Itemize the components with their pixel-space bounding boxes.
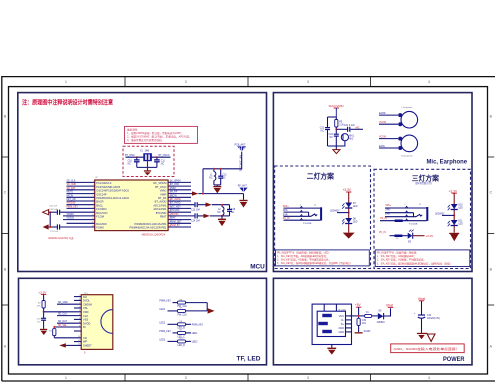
svg-text:OSC24I/PC5/SD/DAT-ADC6: OSC24I/PC5/SD/DAT-ADC6: [96, 189, 129, 193]
svg-text:FOMO: FOMO: [96, 226, 104, 230]
resistor R7: [178, 309, 186, 312]
wire pin18: [168, 196, 191, 198]
svg-text:晶振说明：: 晶振说明：: [127, 128, 140, 132]
svg-text:3、S/A_KEY灯贴，按2时间隔宽脉冲LED模式灯，加89: 3、S/A_KEY灯贴，按2时间隔宽脉冲LED模式灯，加890电位（禁贴）: [377, 261, 452, 265]
svg-text:ANT_50R_LINE: ANT_50R_LINE: [239, 155, 242, 172]
capacitor C31: [418, 314, 425, 316]
svg-text:C23: C23: [329, 134, 334, 136]
svg-text:C22: C22: [320, 128, 325, 130]
svg-text:MIC: MIC: [356, 127, 361, 129]
wire pin3: [67, 189, 95, 191]
wire pin4: [67, 193, 95, 195]
note box: [391, 344, 465, 353]
svg-text:SPK+: SPK+: [283, 206, 290, 208]
wire: [413, 235, 425, 237]
junction: [348, 212, 350, 214]
LED D2: [345, 218, 352, 223]
wire pin15: [168, 185, 191, 187]
ground under USB: [331, 345, 333, 348]
svg-text:二灯方案: 二灯方案: [307, 171, 334, 180]
svg-text:MCU: MCU: [250, 264, 265, 271]
svg-text:Vbat: Vbat: [386, 303, 393, 307]
svg-text:VMID: VMID: [170, 188, 176, 190]
svg-text:7: 7: [79, 295, 80, 297]
svg-text:X1 24M: X1 24M: [140, 151, 149, 153]
svg-text:VMIP: VMIP: [160, 192, 167, 196]
svg-text:PC4/SD/CMD-ADC5: PC4/SD/CMD-ADC5: [96, 185, 120, 189]
svg-text:C13 104: C13 104: [191, 210, 200, 212]
svg-text:SD_DAT: SD_DAT: [58, 320, 67, 323]
junction: [221, 204, 223, 206]
wire SHEET + arrow: [66, 344, 82, 346]
svg-text:NC: NC: [329, 137, 333, 139]
wire: [147, 161, 149, 170]
svg-text:+3.3V: +3.3V: [38, 290, 47, 294]
svg-text:C14 104: C14 104: [191, 221, 200, 223]
capacitor C10: [136, 157, 138, 160]
ground SGND (open): [427, 334, 435, 341]
arrow: [192, 191, 198, 195]
wire: [202, 169, 204, 194]
svg-text:PK_IN: PK_IN: [283, 218, 290, 220]
svg-text:PWM_KEY: PWM_KEY: [67, 206, 79, 208]
notes: [277, 250, 352, 265]
svg-text:LED: LED: [353, 221, 358, 223]
svg-text:EARR: EARR: [379, 112, 386, 115]
svg-text:DI: DI: [83, 325, 86, 329]
svg-text:BACR: BACR: [96, 200, 103, 204]
svg-text:BT_OSCO: BT_OSCO: [159, 155, 170, 157]
svg-text:5: 5: [79, 318, 80, 320]
svg-text:MICIN: MICIN: [170, 195, 177, 197]
svg-text:D11: D11: [458, 220, 463, 222]
svg-text:LED2: LED2: [192, 341, 198, 343]
notes box: [276, 250, 370, 266]
svg-text:C11: C11: [161, 160, 166, 162]
svg-text:LED: LED: [458, 223, 463, 225]
svg-text:D10: D10: [458, 204, 463, 206]
junction: [53, 326, 55, 328]
svg-text:PWM_KEY: PWM_KEY: [159, 301, 171, 303]
ground: [450, 233, 459, 241]
wire: [126, 156, 171, 158]
junction: [202, 193, 204, 195]
svg-text:LED2: LED2: [159, 322, 165, 324]
crystal dashed box: [123, 146, 174, 176]
junction: [335, 128, 337, 130]
ground: [144, 170, 151, 171]
svg-text:D-: D-: [341, 319, 344, 322]
svg-text:RF_ANT: RF_ANT: [238, 185, 248, 188]
svg-text:NC: NC: [37, 321, 41, 323]
pin numbers: [78, 295, 80, 346]
wire: [54, 326, 81, 328]
LED D5: [408, 233, 413, 239]
svg-text:PA_RF: PA_RF: [170, 191, 178, 194]
svg-text:C17 1uF: C17 1uF: [50, 231, 59, 233]
svg-text:MK1: MK1: [349, 136, 354, 138]
svg-text:GND: GND: [338, 331, 344, 334]
LED D4: [451, 220, 458, 225]
wire pin7: [67, 204, 95, 206]
wire pin2: [67, 185, 95, 187]
svg-text:SPK-: SPK-: [283, 210, 289, 212]
svg-text:LED3: LED3: [159, 339, 165, 341]
svg-text:BTCVDD: BTCVDD: [170, 210, 180, 212]
wire: [384, 308, 391, 316]
svg-text:AB5301A_QSOP24: AB5301A_QSOP24: [142, 232, 166, 236]
svg-text:SD_SEL: SD_SEL: [58, 325, 68, 327]
arrow: [204, 214, 210, 218]
svg-text:SD_DAT: SD_DAT: [67, 187, 76, 190]
ground (open): [333, 150, 340, 154]
capacitor C22: [327, 117, 329, 127]
wire: [358, 325, 360, 332]
port SPK+: [43, 210, 49, 215]
wire: [43, 308, 45, 318]
svg-text:LED: LED: [458, 207, 463, 209]
svg-text:DVDD: DVDD: [83, 321, 90, 325]
wire: [402, 235, 407, 237]
svg-text:11: 11: [78, 340, 80, 342]
resistor R5: [335, 120, 338, 128]
wire pin16: [168, 189, 191, 191]
svg-text:1: 1: [65, 376, 67, 380]
svg-text:47K: 47K: [37, 306, 41, 308]
wire: [243, 194, 245, 200]
svg-text:2: 2: [79, 306, 80, 308]
wire pin21: [168, 207, 191, 209]
capacitor C21: [336, 128, 347, 130]
TF1 pin stubs: [74, 297, 81, 342]
svg-text:MICIN: MICIN: [67, 195, 74, 197]
junction: [358, 315, 360, 317]
svg-text:PCB_ANT: PCB_ANT: [235, 143, 246, 146]
svg-text:SPK-: SPK-: [385, 210, 391, 212]
svg-text:PW_CLK: PW_CLK: [178, 314, 188, 316]
svg-text:ADC1/PM1: ADC1/PM1: [153, 207, 167, 211]
svg-text:RF_AVDD: RF_AVDD: [170, 198, 181, 201]
junction: [156, 156, 158, 158]
svg-text:CD: CD: [83, 336, 87, 340]
svg-text:VDDIO: VDDIO: [67, 214, 74, 216]
svg-text:BT_RXD: BT_RXD: [170, 184, 179, 186]
svg-text:220uF(6.3V): 220uF(6.3V): [427, 318, 440, 320]
wire pin24: [168, 219, 191, 221]
IC U2 right pin names: [130, 181, 167, 230]
svg-text:Vbat: Vbat: [418, 297, 425, 301]
svg-text:NC: NC: [217, 212, 221, 214]
svg-text:ADC1/PM2: ADC1/PM2: [153, 203, 167, 207]
svg-text:VCOM: VCOM: [379, 136, 386, 138]
sheet outer frame: [2, 77, 495, 381]
ground: [239, 200, 247, 201]
svg-text:PK_IN: PK_IN: [380, 218, 387, 220]
svg-text:LED: LED: [353, 206, 358, 208]
svg-text:1、S/A_KEY灯不贴，AD按键接LED供电常亮；: 1、S/A_KEY灯不贴，AD按键接LED供电常亮；: [277, 254, 328, 258]
svg-text:NC: NC: [161, 163, 165, 165]
svg-text:BT_OSCI: BT_OSCI: [155, 185, 166, 189]
wire pin12: [67, 222, 95, 224]
wire: [214, 184, 221, 186]
USB highlighted cells: [322, 314, 332, 317]
ground: [221, 216, 223, 219]
MCU block border: [18, 93, 267, 272]
svg-text:L_Earphone: L_Earphone: [401, 106, 413, 109]
svg-text:PC1/SD/CLK: PC1/SD/CLK: [96, 181, 111, 185]
capacitor C25: [41, 317, 46, 319]
svg-text:FCOM/O: FCOM/O: [96, 207, 106, 211]
svg-text:BTCVDD: BTCVDD: [156, 211, 167, 215]
svg-text:PK_IN用于TF卡（在线升级）时检测使用，LED；: PK_IN用于TF卡（在线升级）时检测使用，LED；: [277, 250, 331, 254]
svg-text:SGND: SGND: [364, 331, 371, 333]
svg-text:1、使用24MHZ晶振，默认贴，匹配电容为22PF；: 1、使用24MHZ晶振，默认贴，匹配电容为22PF；: [127, 131, 184, 135]
ground GND: [417, 333, 428, 334]
resistor R12 inline: [395, 220, 403, 223]
IC U2 body: [95, 180, 168, 231]
svg-text:VMIO: VMIO: [160, 189, 167, 193]
svg-text:D+: D+: [341, 323, 345, 326]
wire: [335, 146, 337, 149]
wire: [348, 192, 350, 233]
wire pin11: [63, 219, 95, 221]
svg-text:LED1: LED1: [159, 309, 165, 311]
svg-text:ADC_KEY: ADC_KEY: [170, 205, 181, 208]
svg-text:FBAT: FBAT: [160, 215, 167, 219]
resistor R6: [178, 301, 186, 304]
wire pin14: [168, 181, 191, 183]
svg-text:PWM_KEY: PWM_KEY: [159, 331, 171, 333]
svg-text:VSL: VSL: [83, 306, 88, 310]
svg-text:2、使用24.576MHZ（默认不贴），匹配电容，APS专用: 2、使用24.576MHZ（默认不贴），匹配电容，APS专用；: [127, 135, 191, 139]
wire: [198, 193, 243, 195]
wire LED/KEY: [337, 212, 349, 214]
svg-text:3、晶振需靠近芯片放置走线短。: 3、晶振需靠近芯片放置走线短。: [127, 138, 164, 142]
wire pin25: [168, 222, 191, 224]
wire pin8: [67, 207, 95, 209]
svg-text:注：原理图中注释说明设计时需特别注意: 注：原理图中注释说明设计时需特别注意: [22, 99, 113, 107]
capacitor C30: [357, 318, 360, 325]
port SPK-: [43, 224, 49, 229]
resistor R8: [178, 323, 186, 326]
diode D6: [378, 313, 384, 319]
note box text: [127, 128, 191, 143]
svg-text:SHEET: SHEET: [83, 344, 92, 348]
svg-text:BAC/NW: BAC/NW: [96, 222, 107, 226]
LED D3: [451, 204, 458, 209]
svg-text:4: 4: [428, 376, 430, 380]
scheme-3 dashed box: [374, 169, 471, 268]
svg-text:SPK+: SPK+: [385, 205, 392, 207]
svg-text:VSS: VSS: [83, 318, 88, 322]
svg-text:BT_AVDD: BT_AVDD: [170, 202, 181, 205]
svg-text:3: 3: [79, 310, 80, 312]
arrow: [206, 203, 212, 207]
resistor R9: [178, 331, 186, 334]
inductor L1: [213, 169, 215, 172]
ground: [40, 329, 47, 330]
wire: [49, 212, 51, 227]
fuse F1: [365, 314, 372, 317]
earphone wires: [379, 114, 398, 116]
wire VCC: [350, 315, 365, 317]
svg-text:2、S/A_KEY灯贴，AD按键，平时熄灭状态；: 2、S/A_KEY灯贴，AD按键，平时熄灭状态；: [377, 258, 426, 262]
svg-text:C16 1uF: C16 1uF: [49, 209, 58, 211]
scheme-2 dashed box: [275, 166, 371, 269]
wire: [328, 116, 337, 118]
wire pin22: [168, 211, 191, 213]
resistor R3: [53, 329, 56, 336]
svg-text:C30: C30: [362, 320, 367, 322]
svg-text:LED_D: LED_D: [178, 345, 186, 347]
microphone MK1: [341, 134, 348, 141]
svg-text:NC: NC: [209, 177, 213, 179]
svg-text:PWM4/MODO-ADC1S-PB1: PWM4/MODO-ADC1S-PB1: [135, 222, 167, 226]
svg-text:1: 1: [65, 80, 67, 84]
svg-text:2K_SPKM: 2K_SPKM: [170, 180, 181, 182]
notes box: [375, 250, 470, 267]
capacitor C17: [49, 226, 57, 228]
resistor R10: [178, 340, 186, 343]
wire pin6: [67, 200, 95, 202]
svg-text:FCOM: FCOM: [96, 215, 104, 219]
svg-text:C18: C18: [231, 209, 236, 211]
svg-text:NC: NC: [222, 177, 226, 179]
svg-text:3、S/A_KEY灯，按2时间隔宽脉冲LED模式灯，并加89: 3、S/A_KEY灯，按2时间隔宽脉冲LED模式灯，并加890（禁贴电位）: [277, 261, 352, 265]
svg-text:6: 6: [79, 322, 80, 324]
svg-text:WP: WP: [83, 340, 87, 344]
wire: [206, 303, 208, 311]
notes: [377, 250, 452, 265]
svg-text:PWM_DET: PWM_DET: [170, 221, 182, 223]
svg-text:GND、SGND在输入电源处单点连接！: GND、SGND在输入电源处单点连接！: [394, 346, 460, 351]
wire: [216, 185, 218, 186]
svg-text:Mic, Earphone: Mic, Earphone: [427, 159, 468, 166]
wire: [222, 215, 230, 217]
svg-text:4: 4: [79, 314, 80, 316]
svg-text:LED/KEY: LED/KEY: [435, 213, 445, 215]
svg-text:10: 10: [78, 336, 80, 338]
ground SGND: [355, 332, 363, 333]
junction: [213, 168, 215, 170]
IC U2 left pin names: [96, 181, 129, 230]
LED D1: [345, 203, 352, 208]
junction: [453, 214, 455, 216]
arrow: [208, 308, 215, 313]
ground: [213, 186, 221, 187]
svg-text:PWM_BT: PWM_BT: [170, 225, 180, 227]
svg-text:C31: C31: [427, 315, 432, 317]
junction: [43, 311, 45, 313]
svg-text:1、S/A_KEY灯贴，AD按键接LED；: 1、S/A_KEY灯贴，AD按键接LED；: [377, 254, 416, 258]
U2 pin numbers: [92, 181, 172, 228]
ground: [343, 233, 355, 239]
svg-text:VDD: VDD: [83, 310, 89, 314]
wire: [372, 315, 378, 317]
POWER block border: [273, 278, 472, 365]
resistor R11: [394, 235, 402, 238]
svg-text:2、S/A_KEY灯贴，AD按键，平时熄灭状态点亮；: 2、S/A_KEY灯贴，AD按键，平时熄灭状态点亮；: [277, 258, 331, 262]
svg-text:R_Earphone: R_Earphone: [401, 155, 414, 158]
capacitor C12: [220, 169, 222, 176]
svg-text:NC: NC: [231, 212, 235, 214]
svg-text:4: 4: [428, 80, 430, 84]
svg-text:MUTE: MUTE: [67, 192, 74, 194]
svg-text:KEY_AD: KEY_AD: [67, 198, 76, 201]
svg-text:+5V: +5V: [355, 303, 362, 307]
svg-text:CMD/M: CMD/M: [83, 302, 92, 306]
wire: [137, 166, 157, 168]
svg-text:FBAT: FBAT: [170, 217, 176, 220]
svg-text:BT_AVDD: BT_AVDD: [155, 200, 167, 204]
note box: [125, 126, 198, 143]
svg-text:GND: GND: [338, 327, 344, 330]
wire pin10: [63, 215, 95, 217]
svg-text:VBAT33: VBAT33: [170, 213, 179, 216]
svg-text:VCOM: VCOM: [379, 122, 386, 124]
Mic-Earphone block border: [273, 93, 472, 272]
svg-text:POWER: POWER: [443, 356, 465, 363]
svg-text:PWM4/B/ADCVA-ADC1SR-PB1: PWM4/B/ADCVA-ADC1SR-PB1: [130, 226, 167, 230]
wire pin1: [67, 181, 95, 183]
svg-text:1: 1: [79, 303, 80, 305]
svg-text:BT_RF: BT_RF: [158, 196, 167, 200]
svg-text:LED/KEY: LED/KEY: [330, 211, 340, 213]
USB pin names: [338, 315, 344, 334]
svg-text:PWM_KEY: PWM_KEY: [192, 324, 204, 326]
svg-text:NC: NC: [321, 131, 325, 133]
capacitor C11: [156, 157, 158, 160]
svg-text:EAR: EAR: [283, 213, 288, 216]
svg-text:BT_OSCI: BT_OSCI: [125, 155, 135, 157]
TF-LED block border: [19, 278, 267, 365]
svg-text:SD_CLK: SD_CLK: [67, 180, 76, 182]
earphone R: [401, 135, 418, 152]
svg-text:3: 3: [307, 80, 309, 84]
svg-text:PJ-342B: PJ-342B: [303, 223, 312, 225]
wire: [421, 319, 423, 333]
svg-text:TF, LED: TF, LED: [237, 355, 261, 362]
USB pin stubs: [346, 316, 352, 332]
svg-text:DVDL: DVDL: [83, 299, 90, 303]
capacitor C23: [334, 133, 339, 135]
svg-text:3: 3: [307, 376, 309, 380]
svg-text:PJ-342B: PJ-342B: [409, 223, 418, 225]
wire pin17b: [168, 193, 192, 195]
svg-text:C15 1uF: C15 1uF: [49, 206, 58, 208]
svg-text:DO: DO: [83, 295, 87, 299]
capacitor C14 + wire pin23: [168, 215, 194, 217]
capacitor C13 + wire pin20: [168, 204, 194, 206]
wire: [44, 311, 82, 313]
crystal X1: [143, 153, 152, 161]
junction: [49, 226, 51, 228]
wire: [203, 152, 242, 169]
sheet inner frame: [9, 87, 488, 374]
svg-text:2: 2: [185, 376, 187, 380]
svg-text:OSC24P: OSC24P: [96, 192, 107, 196]
svg-text:PK_IN用于TF卡（在线升级）时检测；: PK_IN用于TF卡（在线升级）时检测；: [377, 250, 419, 254]
wire: [453, 193, 455, 232]
svg-text:+3.3V: +3.3V: [425, 234, 434, 238]
junction: [136, 156, 138, 158]
svg-text:1N5819: 1N5819: [377, 322, 386, 324]
svg-text:LED1: LED1: [192, 333, 198, 335]
resistor R2: [42, 301, 45, 309]
svg-text:MIC: MIC: [349, 139, 354, 141]
svg-text:PA5/MIC/PA3-ADC12-ADC6: PA5/MIC/PA3-ADC12-ADC6: [96, 196, 129, 200]
svg-text:PK_IN: PK_IN: [379, 232, 386, 234]
